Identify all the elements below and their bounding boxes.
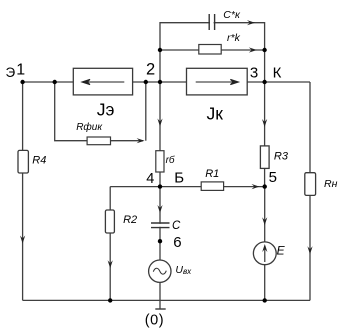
wire left branch node1 down to bottom rail [22, 82, 24, 300]
capacitor C*к plates [209, 14, 214, 30]
svg-text:6: 6 [173, 234, 181, 251]
svg-text:Jк: Jк [207, 104, 224, 124]
node Rфик-top junction dot [53, 80, 57, 84]
wire node2 left stub down [145, 82, 147, 141]
capacitor C plates [151, 223, 170, 228]
svg-text:r*k: r*k [227, 32, 241, 44]
wire node4 down through C and Uвх to (0) terminal [159, 187, 161, 309]
wire node2 down to node4 [159, 82, 161, 187]
source E circle with up arrow [253, 242, 276, 265]
svg-text:R4: R4 [32, 155, 46, 167]
svg-text:Rн: Rн [324, 178, 338, 190]
wire node4 row R2 to node5 [110, 186, 265, 188]
arrow on R1 branch pointing right [252, 184, 260, 189]
wire top rail Jк to right corner [247, 81, 310, 83]
arrow node4 down [157, 205, 162, 213]
resistor rб [156, 151, 164, 172]
resistor R4 [18, 150, 28, 173]
arrow inside Jэ pointing left [82, 79, 124, 84]
svg-text:2: 2 [146, 60, 155, 78]
box Jк [187, 68, 248, 95]
arrow node2 down [157, 119, 162, 127]
wire right branch Rн vertical [309, 82, 311, 300]
bottom rail E junction dot [263, 298, 267, 302]
svg-text:rб: rб [166, 154, 175, 166]
wire node2 up and top Cк branch [160, 23, 265, 82]
wire node3 down to node5 [264, 82, 266, 187]
arrow on rk branch pointing right [249, 47, 257, 52]
svg-text:R3: R3 [274, 151, 289, 163]
arrow R4 branch down [20, 236, 25, 244]
arrow node5 down [262, 217, 267, 225]
wire top rail Jэ to Jк [133, 81, 187, 83]
svg-text:5: 5 [269, 169, 277, 186]
resistor R3 [260, 146, 269, 169]
resistor R1 [201, 182, 223, 191]
svg-text:E: E [277, 243, 286, 257]
svg-text:1: 1 [16, 62, 25, 79]
source Uвх circle with sine [149, 260, 171, 282]
bottom rail R2 junction dot [108, 298, 112, 302]
wire Rфик branch [55, 82, 143, 141]
svg-text:Б: Б [174, 170, 184, 187]
node rk-left junction dot [158, 48, 162, 52]
node 1 junction dot [20, 80, 24, 84]
arrow Rн branch down [307, 246, 312, 254]
node 5 junction dot [263, 184, 267, 188]
terminal tick (0) [155, 308, 165, 310]
node 6 junction dot [158, 239, 162, 243]
node 3 junction dot [262, 80, 266, 84]
svg-text:3: 3 [250, 64, 258, 81]
node 2 right junction dot [158, 80, 162, 84]
arrow inside Jк pointing right [196, 79, 239, 84]
arrow node3 down [262, 119, 267, 127]
svg-text:(0): (0) [145, 312, 164, 328]
wire bottom rail [23, 299, 310, 301]
svg-text:C*к: C*к [223, 9, 241, 21]
svg-text:Rфик: Rфик [76, 121, 103, 133]
svg-text:R2: R2 [123, 214, 137, 226]
svg-text:4: 4 [146, 171, 154, 187]
wire node5 down to E and bottom rail [264, 187, 266, 301]
resistor R2 [105, 210, 114, 233]
resistor Rн [305, 173, 316, 196]
svg-text:R1: R1 [205, 168, 219, 180]
box Jэ [73, 68, 132, 95]
wire top rail node1 to Jэ [23, 81, 74, 83]
arrow on Rфик branch pointing right [137, 138, 145, 143]
svg-text:К: К [273, 64, 282, 81]
arrow R2 branch down [108, 260, 113, 268]
resistor Rфик [87, 137, 110, 145]
wire R2 branch down [109, 187, 111, 301]
arrow on Cк branch pointing right [247, 20, 255, 25]
node 4 junction dot [158, 184, 162, 188]
resistor r*k [199, 45, 221, 55]
node 2 left junction dot [144, 80, 148, 84]
svg-text:C: C [172, 220, 181, 232]
node rk-right junction dot [262, 48, 266, 52]
svg-text:Э: Э [6, 65, 16, 80]
svg-text:Jэ: Jэ [97, 100, 115, 120]
wire rk branch [160, 49, 265, 51]
